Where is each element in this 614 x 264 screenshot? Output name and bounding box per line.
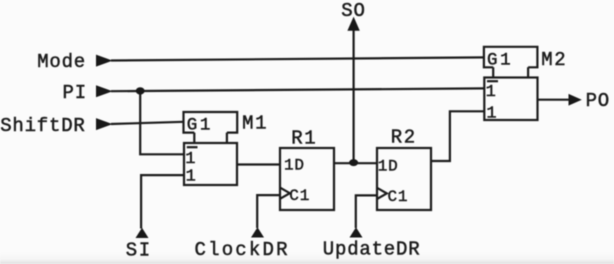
svg-text:G1: G1: [487, 50, 513, 70]
arrow ShiftDR input: [96, 118, 113, 130]
arrow PO output (right): [569, 94, 582, 106]
arrow UpdateDR input (up): [350, 227, 363, 237]
svg-text:SO: SO: [341, 0, 365, 22]
wire PI line: [111, 88, 484, 91]
svg-text:1: 1: [185, 150, 195, 169]
svg-text:M2: M2: [541, 49, 567, 71]
mux M2 select box G1: [484, 47, 538, 68]
overbar on M1 input 1: [187, 146, 198, 148]
overbar on M2 input 1: [487, 80, 498, 82]
register R2 clock notch: [377, 188, 387, 199]
svg-text:UpdateDR: UpdateDR: [323, 239, 421, 261]
junction dot R1-R2 / SO: [349, 159, 358, 166]
register R1 box: [280, 148, 334, 210]
arrow SO output (up): [347, 17, 359, 31]
arrow Mode input: [96, 55, 113, 67]
wire ShiftDR line: [111, 122, 184, 124]
wire SO vertical: [353, 28, 355, 163]
svg-text:1: 1: [186, 168, 196, 187]
wire Mode line: [111, 57, 484, 60]
svg-text:PO: PO: [586, 90, 610, 112]
register R2 box: [377, 148, 431, 210]
svg-text:SI: SI: [126, 240, 152, 262]
wire M1 output to R1 D: [237, 163, 280, 165]
wire R2 Q to M2 input B: [430, 111, 484, 161]
svg-text:G1: G1: [187, 115, 213, 135]
wire M2 output to PO: [538, 99, 570, 101]
mux M1 main box: [184, 143, 237, 185]
wire ClockDR to R1 C1: [257, 195, 280, 228]
svg-text:R2: R2: [391, 127, 417, 149]
svg-text:R1: R1: [291, 127, 317, 149]
svg-text:ClockDR: ClockDR: [195, 239, 290, 261]
mux M1 select box G1: [184, 112, 238, 133]
svg-text:PI: PI: [63, 82, 87, 104]
arrow ClockDR input (up): [251, 227, 264, 237]
svg-text:C1: C1: [289, 187, 310, 205]
arrow SI input (up): [136, 228, 149, 238]
wire SI to M1 input B: [141, 175, 184, 228]
svg-text:C1: C1: [388, 188, 409, 206]
mux M1 select box legs: [194, 133, 227, 144]
register R1 clock notch: [280, 188, 290, 199]
mux M2 select box legs: [493, 67, 528, 77]
svg-text:1D: 1D: [378, 157, 399, 175]
mux M2 main box: [484, 78, 537, 121]
wire UpdateDR to R2 C1: [356, 195, 377, 228]
svg-text:1: 1: [486, 105, 496, 124]
svg-text:Mode: Mode: [37, 51, 86, 73]
svg-text:1D: 1D: [284, 157, 305, 175]
wire PI to M1 input A: [140, 91, 184, 154]
svg-text:1: 1: [486, 83, 496, 102]
svg-text:ShiftDR: ShiftDR: [0, 115, 85, 137]
svg-text:M1: M1: [242, 113, 268, 135]
arrow PI input: [96, 85, 113, 97]
junction dot PI: [136, 87, 145, 94]
wire R1 Q to R2 D: [334, 162, 377, 164]
